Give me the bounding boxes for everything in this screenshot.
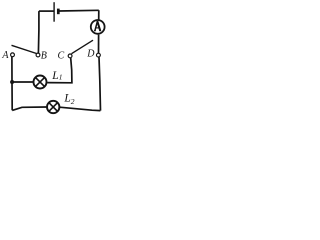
terminal A circle xyxy=(11,53,15,57)
wire terminal A down left side xyxy=(11,57,13,110)
battery long plate (+) xyxy=(53,2,55,22)
terminal D circle xyxy=(97,53,101,57)
lamp L1 cross xyxy=(35,77,44,86)
wire right vertical upper (corner down to ammeter) xyxy=(98,10,100,19)
svg-text:L: L xyxy=(51,70,58,82)
lamp L2 cross xyxy=(49,103,58,112)
svg-text:D: D xyxy=(86,48,95,59)
terminal C circle xyxy=(68,54,72,58)
ammeter A1 circle xyxy=(91,20,105,34)
svg-text:A: A xyxy=(1,50,9,61)
switch blade B-A xyxy=(12,45,37,53)
switch blade C-D xyxy=(72,40,94,54)
wire top-left (corner to battery +) xyxy=(39,10,54,12)
lamp L2 circle xyxy=(47,101,59,113)
wire bottom-right (lamp L2 to corner) xyxy=(60,107,101,110)
wire C down to corner and left to lamp L1 xyxy=(47,58,72,83)
svg-text:C: C xyxy=(58,50,65,61)
wire left vertical (corner down to terminal B) xyxy=(37,11,40,53)
svg-text:L: L xyxy=(63,92,70,104)
svg-text:B: B xyxy=(41,50,47,61)
svg-text:2: 2 xyxy=(71,97,75,106)
lamp L1 circle xyxy=(34,76,47,89)
wire junction to lamp L1 left xyxy=(12,81,33,83)
wire top-right (battery - to corner) xyxy=(59,9,99,12)
ammeter A1 letter xyxy=(94,21,101,31)
wire bottom-left (corner to lamp L2) xyxy=(12,107,47,110)
svg-text:1: 1 xyxy=(59,73,63,82)
terminal B circle xyxy=(36,53,40,57)
wire terminal D down right side to corner xyxy=(99,57,101,110)
junction node dot xyxy=(10,80,14,84)
wire ammeter to terminal D xyxy=(98,35,100,53)
battery short plate (-) xyxy=(57,9,60,15)
